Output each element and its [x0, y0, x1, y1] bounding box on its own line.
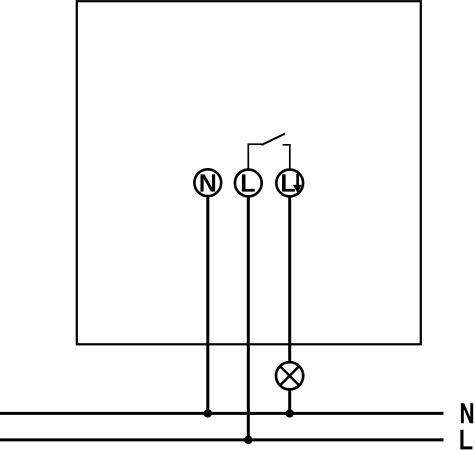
wire: L terminal down to L bus — [247, 197, 250, 440]
label N (bus) — [461, 403, 473, 423]
device outline box — [77, 1, 421, 344]
wire: N terminal down to N bus — [206, 196, 209, 413]
terminal L — [235, 170, 262, 197]
terminal N — [194, 169, 221, 196]
lamp E1 — [276, 362, 303, 389]
junction dot: N wire on N bus — [204, 409, 212, 417]
N bus line — [0, 412, 444, 415]
label L (bus) — [460, 430, 472, 450]
switch S1 blade (open) — [262, 134, 286, 145]
wire: switch right contact down to L-arrow terminal — [283, 145, 290, 169]
terminal L-arrow (switched live) — [276, 170, 303, 197]
wire: L-arrow terminal down to lamp — [288, 197, 291, 363]
junction dot: L wire on L bus — [244, 436, 252, 444]
wire: lamp down to N bus — [288, 389, 291, 413]
L bus line — [0, 438, 444, 441]
wire: L terminal up to switch left contact — [248, 144, 262, 169]
junction dot: lamp wire on N bus — [286, 409, 294, 417]
